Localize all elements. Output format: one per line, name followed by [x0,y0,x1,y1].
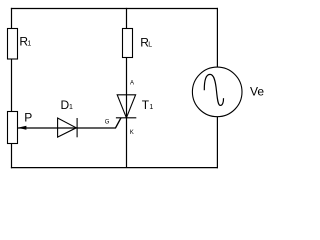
svg-text:A: A [130,81,134,87]
svg-text:1: 1 [69,104,73,111]
svg-text:1: 1 [27,41,31,48]
svg-text:Ve: Ve [250,85,264,99]
svg-text:L: L [148,42,152,49]
svg-text:P: P [24,110,32,124]
svg-text:G: G [105,120,110,126]
svg-text:1: 1 [149,104,153,111]
svg-text:K: K [130,130,134,136]
